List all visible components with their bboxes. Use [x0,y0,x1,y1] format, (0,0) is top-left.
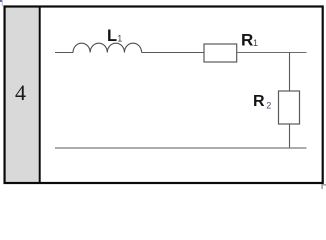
gridline tick bottom-right horizontal [322,184,326,186]
svg-text:R: R [253,93,265,110]
svg-text:R: R [241,31,253,50]
wire bottom return [55,147,307,149]
wire R2 bottom lead [289,124,291,148]
screenshot edge artifact: light gray line [2,0,3,6]
inductor L1 [73,43,142,52]
screenshot edge artifact: blue corner mark [0,0,2,2]
table outer border frame [5,7,323,184]
svg-text:L: L [107,27,117,45]
svg-text:1: 1 [253,38,258,48]
wire junction drop to R2 [289,53,291,92]
table cell divider [39,6,41,183]
wire R1 to right end [237,52,307,54]
wire top-left [55,52,73,54]
svg-text:1: 1 [117,34,122,44]
gridline tick bottom-right vertical [321,184,323,189]
svg-text:4: 4 [15,80,26,105]
wire inductor to R1 [142,52,204,54]
resistor R1 [204,44,237,62]
svg-text:2: 2 [266,101,271,111]
resistor R2 [279,91,300,124]
table cell shading (row header cell) [6,7,39,182]
